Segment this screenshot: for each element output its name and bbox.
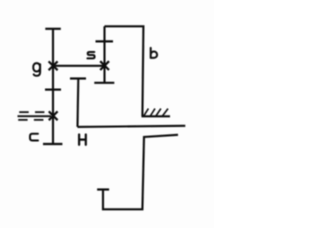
label H bbox=[79, 135, 86, 145]
node left shaft top cap bbox=[45, 28, 61, 30]
ground hatch bbox=[144, 109, 168, 116]
wire step bracket bbox=[103, 135, 178, 210]
node H shaft cap bbox=[70, 77, 86, 79]
node bottom shaft cap bbox=[97, 188, 109, 190]
node left shaft mid tick bbox=[45, 88, 61, 90]
label g bbox=[33, 63, 40, 76]
label s bbox=[87, 52, 94, 58]
wire right shaft s bbox=[103, 26, 105, 83]
node s shaft tick bbox=[96, 40, 114, 42]
label b bbox=[151, 48, 157, 58]
node clutch c line bbox=[18, 115, 52, 117]
label c bbox=[30, 134, 38, 141]
node left shaft bottom cap bbox=[43, 143, 62, 145]
wire top frame b bbox=[105, 26, 144, 116]
wire H shaft bbox=[76, 79, 79, 127]
node clutch c dashes bbox=[18, 112, 44, 120]
wire g to s bbox=[53, 65, 105, 67]
node bearing X g bbox=[49, 61, 58, 70]
wire left shaft g-c bbox=[52, 29, 54, 144]
node bearing X c bbox=[49, 111, 58, 120]
ground base bbox=[142, 115, 171, 117]
wire H arm line bbox=[78, 126, 186, 127]
node bearing X s bbox=[100, 61, 109, 70]
node s shaft bottom cap bbox=[94, 82, 114, 84]
